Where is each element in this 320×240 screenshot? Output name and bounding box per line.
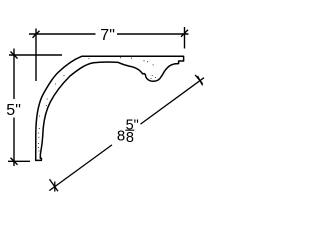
- tick top (5"): [11, 52, 18, 59]
- extension line left (7"): [35, 29, 37, 82]
- svg-text:7": 7": [100, 27, 115, 44]
- 7 inch dimension line: [29, 33, 189, 35]
- extension stub upper (diagonal): [195, 75, 202, 84]
- extension line bottom (5"): [8, 160, 30, 162]
- diagonal dimension line lower segment: [49, 145, 112, 191]
- tick upper (diagonal): [198, 76, 203, 85]
- svg-text:5": 5": [6, 102, 21, 119]
- extension line top (5"): [9, 54, 62, 56]
- 5 inch dimension line: [13, 49, 15, 167]
- tick lower (diagonal): [50, 179, 59, 191]
- tick right (7"): [181, 30, 188, 37]
- tick bottom (5"): [11, 158, 18, 165]
- fraction bar: [125, 129, 134, 131]
- tick left (7"): [33, 31, 40, 38]
- bracket outline: [36, 56, 184, 160]
- svg-text:8: 8: [126, 130, 134, 146]
- extension line right (7"): [184, 27, 186, 49]
- stipple dots: [38, 57, 156, 151]
- svg-text:8: 8: [117, 127, 125, 144]
- extension stub lower (diagonal): [54, 182, 56, 192]
- diagonal dimension line upper segment: [141, 78, 205, 124]
